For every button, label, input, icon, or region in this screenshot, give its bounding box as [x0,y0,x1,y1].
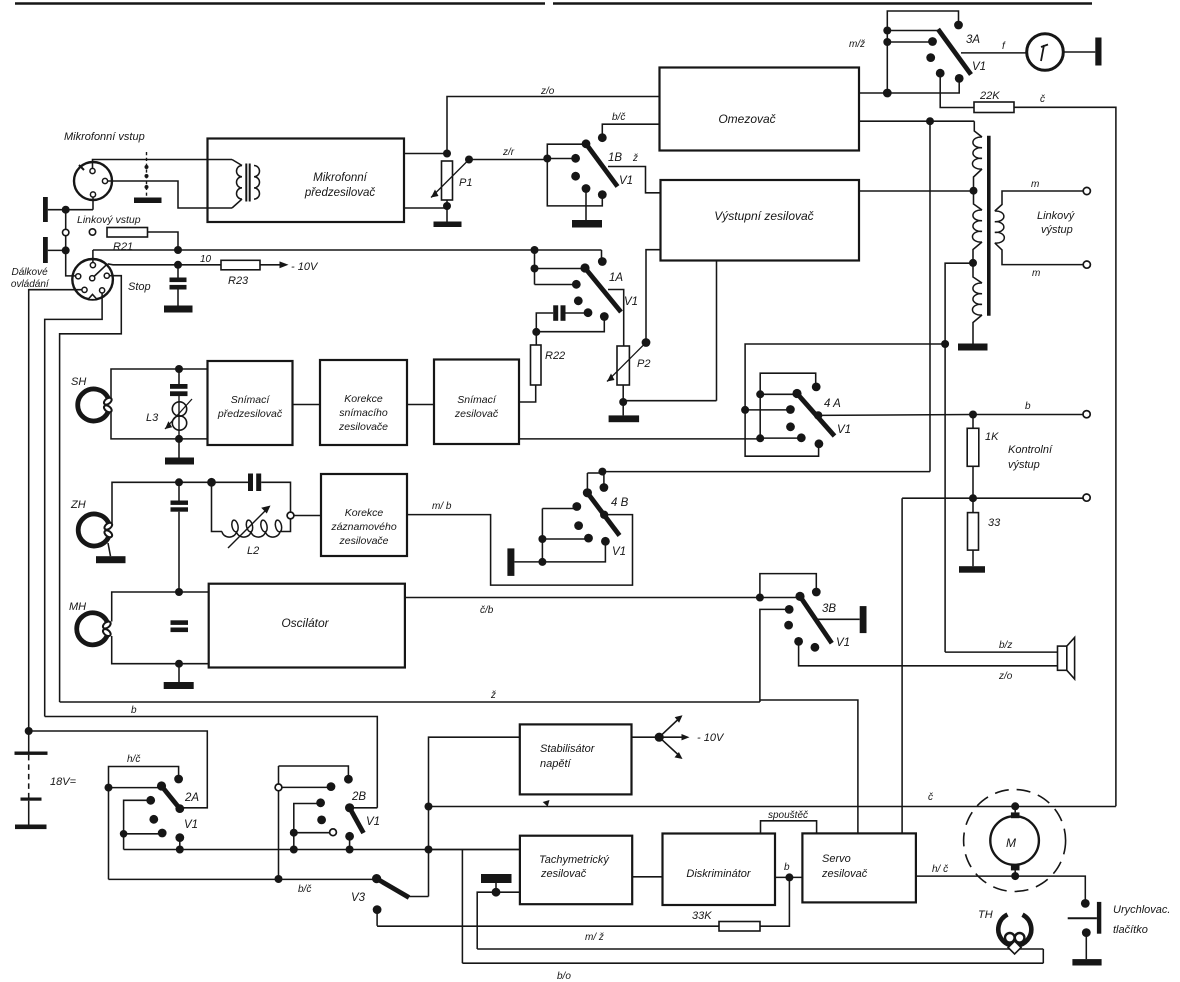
wire diskriminator to servo [775,876,802,878]
wire V3 arm to c column [408,896,429,898]
svg-text:- 10V: - 10V [291,261,319,273]
capacitor at 1A [553,305,558,321]
svg-text:Korekce: Korekce [344,393,383,405]
svg-text:ZH: ZH [70,499,86,511]
svg-text:- 10V: - 10V [697,732,725,744]
terminal kontrolni [1083,494,1090,501]
jack bar lower [43,237,48,263]
wire b line [45,717,378,808]
svg-text:Kontrolní: Kontrolní [1008,444,1053,456]
switch 3B [756,594,764,602]
svg-text:č: č [928,792,933,803]
ground under 1B [572,220,602,228]
svg-text:1K: 1K [985,431,999,443]
switch 4A inner frame [760,373,816,438]
svg-text:b: b [131,705,137,716]
wire 3A arm to meter [961,52,1027,54]
svg-text:z/r: z/r [502,147,515,158]
wire common rail 2A-2B [124,849,520,851]
capacitor in tank [248,474,253,492]
motor brushes [1011,812,1020,818]
bottom rail upper [477,948,1043,950]
svg-text:Snímací: Snímací [457,394,497,406]
resistor R23 [221,260,260,270]
resistor 1K [967,428,979,466]
potentiometer P1 [442,161,453,200]
svg-text:zesilovač: zesilovač [821,868,868,880]
wire Stop top pin riser [92,250,94,263]
svg-text:2B: 2B [351,791,366,803]
wire c line horizontal [429,806,1116,808]
battery 18V [28,731,30,752]
block Korekce snimaciho [320,360,407,445]
wire ZH top [112,482,211,523]
svg-text:Oscilátor: Oscilátor [281,616,329,630]
block Tachymetricky zesilovac [520,836,632,905]
inductor L2 [222,532,280,538]
svg-text:M: M [1006,836,1016,850]
svg-text:m: m [1032,268,1040,279]
svg-text:předzesilovač: předzesilovač [217,408,283,420]
wire meter to terminal [1063,51,1095,53]
wire kontrolni vystup lower [902,497,1083,499]
wire tachymetr to diskriminator [632,876,662,878]
switch V3 [372,874,381,883]
switch inside Stop connector [94,264,108,277]
head ZH [78,514,108,546]
svg-text:snímacího: snímacího [339,407,388,419]
connector J2 Stop [72,259,113,300]
wire tap2 to speaker column [945,263,973,652]
transformer secondary [995,211,1005,243]
svg-text:4 B: 4 B [611,497,629,509]
wire Omezovac output to 3A [859,78,959,93]
wire y265 from Stop to R23 [108,263,221,266]
push button Urychlovaci tlacitko [1081,899,1090,908]
block Omezovac [660,68,860,151]
tank circuit L2 [207,478,216,487]
switch 4A frame [745,344,945,456]
svg-text:P1: P1 [459,177,472,189]
svg-text:L3: L3 [146,412,159,424]
svg-text:Tachymetrický: Tachymetrický [539,854,610,866]
svg-text:Korekce: Korekce [345,507,384,519]
svg-text:L2: L2 [247,545,259,557]
svg-text:R23: R23 [228,275,249,287]
svg-text:1A: 1A [609,272,623,284]
svg-text:3A: 3A [966,34,980,46]
wire R21 to bus [148,232,179,250]
svg-text:Servo: Servo [822,853,851,865]
wire box bottom to P2 bottom line [716,262,718,401]
node jack1 [62,206,70,214]
ground under shield [134,198,162,204]
wire jack2 [48,249,66,251]
wire bus y250 [93,249,602,251]
ground under MH riser [164,682,194,689]
ground under transformer [958,344,988,351]
terminal bar at 3B [860,606,867,633]
svg-text:Stop: Stop [128,281,151,293]
svg-text:4 A: 4 A [824,398,841,410]
terminal output m upper [1083,187,1090,194]
wire MH bottom [112,636,209,664]
border rule top-left [15,2,545,5]
svg-text:výstup: výstup [1008,459,1040,471]
wire jack riser to Stop left pin [66,210,76,276]
svg-text:V1: V1 [612,546,626,558]
svg-text:tlačítko: tlačítko [1113,924,1148,936]
svg-text:Mikrofonní: Mikrofonní [313,172,368,184]
svg-text:b/o: b/o [557,971,571,982]
wire preamp output to P1 [404,153,447,155]
svg-text:m/ b: m/ b [432,501,452,512]
wire second input tachymetr [477,892,520,949]
wire battery feed [29,731,208,808]
wire c/b oscillator to 3B [405,597,797,599]
svg-text:Linkový: Linkový [1037,210,1076,222]
svg-text:b/z: b/z [999,640,1012,651]
svg-text:MH: MH [69,601,86,613]
block Mikrofonni predzesilovac [208,139,405,223]
motor M dashed stator [964,790,1066,892]
wire R23 to arrow [260,264,281,266]
svg-text:z/o: z/o [540,86,555,97]
svg-text:R21: R21 [113,241,133,253]
wire -10V arrows [632,736,660,738]
shield screen with ground [146,152,148,197]
svg-text:h/ č: h/ č [932,864,948,875]
switch 1B [543,155,551,163]
wire P2 bottom to output stage [623,400,716,402]
terminal ring on riser [62,229,68,235]
svg-text:Linkový vstup: Linkový vstup [77,214,141,226]
node jack2 [62,246,70,254]
wire long vertical from omezovac node [929,121,931,471]
svg-text:spouštěč: spouštěč [768,810,808,821]
svg-text:m: m [1031,179,1039,190]
resistor R21 [107,228,148,238]
svg-text:z/o: z/o [998,671,1013,682]
transformer core [987,136,991,316]
capacitor on MH riser [171,620,189,625]
switch 4B [586,473,588,490]
wire 1B arm to Vystupni zesilovac [608,167,661,193]
wire m/z line [377,925,719,927]
wire z line [60,701,760,703]
svg-text:V1: V1 [972,61,986,73]
svg-text:18V=: 18V= [50,776,77,788]
capacitor above L3 [178,369,180,384]
svg-text:ž: ž [490,690,496,701]
node bus R21 [174,246,182,254]
svg-text:TH: TH [978,909,993,921]
wire z/o riser [447,97,660,154]
border rule top-right [553,2,1092,5]
head MH [77,613,107,645]
wire preamp lower output [404,207,447,209]
wire mic right pin to transformer lower lead [108,181,232,208]
ground under ZH [108,543,111,556]
svg-text:V1: V1 [837,424,851,436]
svg-text:22K: 22K [979,90,1000,102]
svg-text:P2: P2 [637,358,650,370]
svg-text:předzesilovač: předzesilovač [304,187,376,199]
wire Stop bottom-right pin to b column [45,293,102,717]
svg-text:3B: 3B [822,603,836,615]
svg-text:č/b: č/b [480,605,494,616]
svg-text:Dálkové: Dálkové [12,267,49,278]
wire to korekce [293,404,321,406]
wire SH bottom [111,412,208,439]
meter M1 [1027,34,1064,71]
chassis bar above tachymetr [481,874,512,883]
node cap junction [174,261,182,269]
jack bar upper [43,197,48,222]
wire Stop bottom-left pin to battery column [29,290,82,731]
svg-text:zesilovače: zesilovače [338,421,388,433]
svg-text:1B: 1B [608,152,622,164]
wire c from 22K [1014,107,1116,806]
svg-text:10: 10 [200,254,212,265]
svg-text:č: č [1040,94,1045,105]
svg-text:výstup: výstup [1041,224,1073,236]
svg-text:R22: R22 [545,350,565,362]
svg-text:h/č: h/č [127,754,140,765]
node battery top [25,727,33,735]
bottom rail lower b/o [462,962,1043,964]
svg-text:zesilovač: zesilovač [540,868,587,880]
svg-text:V1: V1 [836,637,850,649]
svg-text:zesilovač: zesilovač [454,408,499,420]
wire output to transformer tap [859,190,974,192]
node bus R22 riser [531,246,539,254]
terminal bar at 4B [507,548,514,576]
wire b/c line [109,878,377,880]
svg-text:V3: V3 [351,892,366,904]
wire c column stabilisator input [429,737,520,896]
svg-text:m/ž: m/ž [849,39,865,50]
switch 2B [279,766,349,776]
wire servo feed column [901,498,903,833]
block Snimaci zesilovac [434,360,519,445]
block Vystupni zesilovac [661,180,860,261]
wire z/r [469,159,547,161]
svg-text:b/č: b/č [612,112,625,123]
svg-text:b: b [1025,401,1031,412]
contact 1A top right [598,257,607,266]
wire m/b to 4B [407,515,633,586]
block Stabilisator napeti [520,724,632,794]
svg-text:ž: ž [632,153,638,164]
node transformer ground column [941,340,949,348]
block Diskriminator [663,834,776,906]
svg-text:Snímací: Snímací [231,394,271,406]
svg-text:záznamového: záznamového [330,521,397,533]
wire z line to servo [760,700,858,833]
wire box left edge to P2 wiper [646,250,661,343]
transformer T1 input [232,160,242,166]
resistor R22 [531,345,542,385]
svg-text:2A: 2A [184,792,199,804]
wire 3B to speaker z/o [799,641,1058,665]
speaker LS [1058,646,1067,670]
svg-text:napětí: napětí [540,758,572,770]
svg-text:Urychlovac.: Urychlovac. [1113,904,1170,916]
wire Omezovac lower output to transformer [859,120,974,122]
svg-text:m/ ž: m/ ž [585,932,604,943]
ground under P2 [609,415,640,422]
svg-text:zesilovače: zesilovače [338,535,388,547]
rail right joint [1042,949,1044,963]
svg-text:ovládání: ovládání [11,279,50,290]
wire 4A output b [818,414,1083,417]
switch 3A [887,11,958,93]
wire snimaci output to 4A [519,438,760,440]
switch 1A [534,250,536,285]
svg-text:Diskriminátor: Diskriminátor [686,868,752,880]
wire branch to b/o rail [461,850,463,964]
wire to snimaci zesilovac [407,404,434,406]
svg-text:b/č: b/č [298,884,311,895]
wire mic bottom pin to jack line [92,197,94,210]
wire bus drop to 1A [601,250,603,258]
svg-text:Omezovač: Omezovač [718,112,775,126]
connector J1 microphone input [74,162,112,200]
svg-text:Stabilisátor: Stabilisátor [540,743,596,755]
terminal line input [89,229,95,235]
block Oscilator [209,584,405,668]
head SH [78,389,108,421]
terminal output m lower [1083,261,1090,268]
bracket spoustec [761,821,817,834]
wire mic top pin to transformer [93,160,233,169]
node P1 wiper [465,156,473,164]
capacitor pair on riser [178,482,180,500]
svg-text:33K: 33K [692,910,712,922]
terminal bar at meter [1095,38,1101,66]
switch 4A arm [797,394,835,437]
potentiometer P2 [617,346,629,385]
wire 1A arm output to P2 [608,290,624,347]
block Snimaci predzesilovac [208,361,293,445]
transformer T2 output primary [974,121,982,137]
inductor L3 variable [178,396,180,439]
resistor 33K [719,922,760,932]
wire b/z to speaker [945,651,1057,653]
terminal b [1083,411,1090,418]
ground under P1 [434,222,462,228]
node P1 bottom [443,202,451,210]
wire servo output h/c [916,876,1085,899]
ground under L3 [178,439,180,458]
block Servo zesilovac [802,833,916,902]
svg-text:V1: V1 [366,816,380,828]
ground under cap [164,306,193,313]
resistor 22K [974,102,1014,113]
wire MH top [112,592,209,622]
wire SH top [111,369,208,398]
capacitor C stop [177,265,179,278]
motor M rotor [990,816,1039,865]
block Korekce zaznamoveho [321,474,407,556]
svg-text:V1: V1 [624,296,638,308]
wire jack1 [48,209,93,211]
svg-text:Mikrofonní vstup: Mikrofonní vstup [64,131,145,143]
svg-text:V1: V1 [184,819,198,831]
svg-text:b: b [784,862,790,873]
svg-text:V1: V1 [619,175,633,187]
wire Stop right pin zigzag to z line [60,276,122,702]
svg-text:Výstupní zesilovač: Výstupní zesilovač [714,209,813,223]
svg-text:SH: SH [71,376,86,388]
wire tank to korekce zaznamoveho [294,515,321,517]
wire b node to 33K [760,877,789,926]
wire tachymetr input [429,849,520,851]
svg-text:33: 33 [988,517,1001,529]
resistor 33 [968,513,979,551]
node at P1 top [443,150,451,158]
ground under 33 [959,566,985,573]
